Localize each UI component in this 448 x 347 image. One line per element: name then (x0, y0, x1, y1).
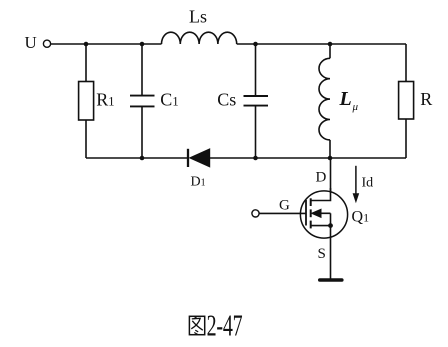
wire source-body vertical (330, 213, 332, 225)
transistor Q1 channel segment top (310, 198, 312, 206)
wire drain lead from node H to MOSFET (330, 158, 332, 201)
transistor Q1 body arrow head (312, 209, 322, 217)
wire right vertical upper to resistor R (405, 44, 407, 82)
svg-text:D1: D1 (191, 175, 206, 190)
wire top from Ls to node C (237, 43, 256, 45)
wire top from U terminal to node A (51, 43, 86, 45)
wire gate lead (259, 212, 306, 214)
wire top from node B to Ls (142, 43, 162, 45)
wire Cs branch lower (255, 106, 257, 158)
capacitor Cs (244, 96, 269, 106)
node D junction dot (328, 42, 333, 47)
wire C1 branch lower (141, 106, 143, 158)
svg-text:L: L (339, 88, 352, 110)
wire left vertical lower below resistor R1 (85, 120, 87, 158)
diode D1 cathode bar (187, 149, 189, 167)
node G gate terminal circle (252, 210, 259, 217)
svg-text:μ: μ (352, 101, 359, 113)
wire bottom from diode D1 to node F (142, 157, 188, 159)
wire top from node D to right corner (330, 43, 406, 45)
transistor Q1 channel segment middle (310, 209, 312, 217)
svg-text:Id: Id (362, 175, 374, 190)
svg-text:U: U (25, 33, 37, 52)
wire Cs branch upper (255, 44, 257, 96)
transistor Q1 drain internal connection (311, 188, 331, 201)
inductor Lmu (319, 58, 330, 140)
wire top from node A to node B (86, 43, 142, 45)
transistor Q1 body arrow line (314, 212, 331, 214)
wire left vertical upper above resistor R1 (85, 44, 87, 82)
wire bottom from node G to diode D1 (210, 157, 256, 159)
node source junction dot (328, 223, 333, 228)
svg-text:Q1: Q1 (352, 209, 370, 226)
node G2 junction dot (253, 156, 258, 161)
transistor Q1 body circle (300, 191, 347, 238)
wire top from node C to node D (256, 43, 331, 45)
resistor R1 (79, 82, 94, 121)
transistor Q1 source internal connection (311, 225, 331, 227)
wire bottom from node F to left corner (86, 157, 142, 159)
wire right vertical lower from resistor R (405, 119, 407, 158)
current arrow Id (353, 166, 360, 204)
ground (320, 278, 342, 282)
node H junction dot (328, 156, 333, 161)
resistor R (399, 82, 414, 120)
caption figure number 图2-47 (189, 316, 204, 334)
svg-text:C1: C1 (160, 89, 178, 109)
transistor Q1 gate bar (305, 200, 307, 226)
svg-text:G: G (279, 198, 290, 214)
svg-text:D: D (316, 169, 327, 185)
node C junction dot (253, 42, 258, 47)
svg-text:Cs: Cs (217, 89, 236, 109)
node B junction dot (140, 42, 145, 47)
node F junction dot (140, 156, 145, 161)
transistor Q1 channel segment bottom (310, 221, 312, 229)
svg-text:S: S (318, 246, 326, 262)
wire bottom from node H to node G (256, 157, 331, 159)
diode D1 triangle (190, 149, 210, 167)
wire Lmu branch lower lead (329, 140, 331, 158)
wire Lmu branch upper lead (329, 44, 331, 58)
node A junction dot (84, 42, 89, 47)
svg-text:R: R (420, 89, 432, 109)
svg-text:2-47: 2-47 (207, 308, 243, 342)
capacitor C1 (130, 96, 155, 107)
wire C1 branch upper (141, 44, 143, 96)
svg-text:R1: R1 (96, 89, 114, 109)
svg-text:Ls: Ls (189, 6, 207, 26)
wire source lead down (330, 226, 332, 279)
wire bottom from right corner to node H (330, 157, 406, 159)
inductor Ls (162, 32, 237, 44)
node U input terminal circle (43, 40, 50, 47)
